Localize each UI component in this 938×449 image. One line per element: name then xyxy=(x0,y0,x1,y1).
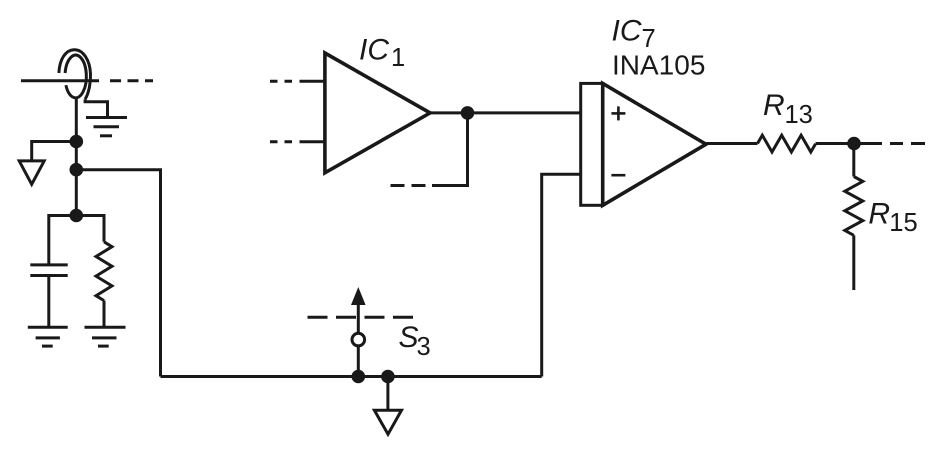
op-amp IC1 triangle xyxy=(325,53,430,173)
wire: feedback from node D down and left xyxy=(432,113,468,186)
resistor (shunt, unlabeled) xyxy=(96,242,112,301)
resistor R15 xyxy=(845,177,863,236)
wire: node E down to R15 xyxy=(852,144,855,177)
resistor R13 xyxy=(758,135,816,152)
node G (junction dot on bus) xyxy=(381,370,395,384)
wire: IC1 bottom input (dashed) xyxy=(270,140,293,143)
svg-text:13: 13 xyxy=(785,101,813,129)
label R13 xyxy=(763,89,813,129)
earth ground (capacitor) xyxy=(28,327,68,346)
wire: IC1 top input (solid) xyxy=(300,80,326,83)
wire: node B to node C xyxy=(75,170,78,216)
wire: shunt resistor to ground xyxy=(103,301,106,328)
wire: shield to earth ground (step) xyxy=(85,99,107,117)
switch S3 contact circle xyxy=(352,333,365,346)
svg-text:R: R xyxy=(763,89,785,122)
wire: node A to node B xyxy=(75,142,78,170)
label IC1 xyxy=(359,34,405,73)
wire: input lead dashed continuation xyxy=(110,79,153,82)
switch S3 arrow head (filled) xyxy=(351,287,366,305)
svg-text:3: 3 xyxy=(417,333,431,361)
node D (junction dot at IC1 output) xyxy=(461,106,475,120)
analog ground triangle (open) xyxy=(19,161,44,184)
plus sign (IC7 noninverting input) xyxy=(611,106,625,120)
svg-text:R: R xyxy=(868,198,890,231)
capacitor (shunt) xyxy=(30,265,67,276)
IC7 input box xyxy=(581,83,603,205)
wire: node C to shunt resistor xyxy=(76,216,104,242)
switch S3 arrow stem xyxy=(357,301,360,334)
node F (junction dot on bus) xyxy=(352,370,366,384)
wire: node A to analog-ground triangle xyxy=(32,142,77,161)
earth ground (shunt resistor) xyxy=(85,327,126,346)
shield loop inner ellipse xyxy=(65,55,86,98)
node C (junction dot) xyxy=(70,209,84,223)
node E (junction dot) xyxy=(847,137,861,151)
minus sign (IC7 inverting input) xyxy=(611,174,625,177)
wire: feedback dashed continuation xyxy=(390,184,426,187)
wire: IC1 bottom input (solid) xyxy=(300,140,326,143)
wire: loop bottom down to node A xyxy=(75,98,78,142)
wire: IC7 output to R13 xyxy=(706,142,758,145)
wire: IC1 output to IC7 + input xyxy=(430,111,581,114)
wire: IC1 top input (dashed) xyxy=(270,80,293,83)
wire: bottom bus xyxy=(161,375,542,378)
wire: output dashed continuation xyxy=(861,142,926,145)
label IC7 xyxy=(612,15,656,54)
label S3 xyxy=(399,321,431,361)
wire: input lead through shield loop (solid part) xyxy=(21,79,99,82)
wire: node G to ground triangle xyxy=(386,377,389,411)
shield loop outer arc xyxy=(59,50,91,100)
switch S3 travel dashed line xyxy=(308,316,417,319)
svg-text:S: S xyxy=(399,321,419,354)
svg-text:INA105: INA105 xyxy=(612,50,705,81)
svg-text:IC: IC xyxy=(612,15,642,48)
svg-text:1: 1 xyxy=(391,44,405,72)
svg-text:IC: IC xyxy=(359,34,389,67)
wire: node C to capacitor xyxy=(49,216,77,265)
wire: contact circle to node F xyxy=(357,346,360,377)
analog ground triangle at S3 (open) xyxy=(374,410,401,434)
earth ground (shield) xyxy=(86,118,127,136)
wire: R15 lower lead xyxy=(852,235,855,290)
wire: node B right and down to bottom bus xyxy=(76,170,160,377)
node B (junction dot) xyxy=(70,163,84,177)
wire: capacitor to ground xyxy=(47,276,50,328)
svg-text:15: 15 xyxy=(889,209,917,237)
node A (junction dot) xyxy=(70,135,84,149)
wire: R13 to node E xyxy=(816,142,854,145)
label R15 xyxy=(868,198,917,238)
op-amp IC7 triangle xyxy=(603,83,706,205)
wire: IC7 bottom input from bus xyxy=(542,174,581,376)
